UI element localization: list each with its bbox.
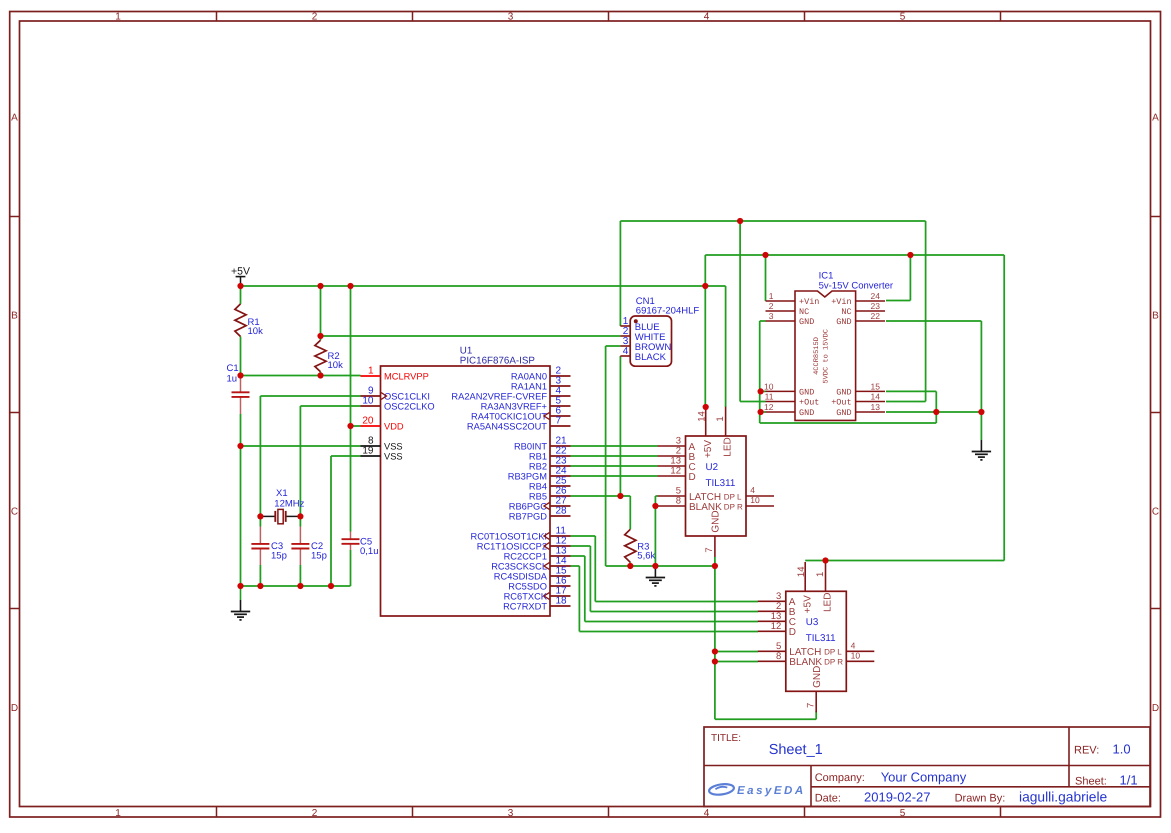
svg-text:12: 12 xyxy=(764,402,774,412)
IC1 pin 12 GND xyxy=(764,402,814,418)
svg-text:10: 10 xyxy=(362,395,374,406)
svg-text:Sheet_1: Sheet_1 xyxy=(769,742,823,758)
IC1 pin 14 +Out xyxy=(831,391,885,407)
svg-text:RA1AN1: RA1AN1 xyxy=(511,381,547,391)
U1 pin 15 RC4SDISDA xyxy=(494,565,571,581)
wire xyxy=(584,556,586,622)
svg-text:DP L: DP L xyxy=(724,492,742,501)
U1 pin 8 VSS xyxy=(361,435,403,451)
svg-text:A: A xyxy=(1152,113,1159,124)
svg-text:RA5AN4SSC2OUT: RA5AN4SSC2OUT xyxy=(467,421,547,431)
svg-text:GND: GND xyxy=(812,666,823,688)
node junction (620.4,496) xyxy=(617,493,623,499)
U2 pin 13 C xyxy=(658,456,696,473)
CN1 pin 2 WHITE xyxy=(620,326,665,343)
svg-text:4: 4 xyxy=(851,640,856,650)
wire xyxy=(321,335,621,337)
+5V power flag xyxy=(231,265,250,286)
svg-text:22: 22 xyxy=(871,311,881,321)
connector CN1 69167-204HLF body xyxy=(630,316,671,366)
svg-text:+Out: +Out xyxy=(799,398,819,408)
capacitor C1 xyxy=(240,376,242,393)
wire xyxy=(605,346,607,566)
svg-text:RC6TXCK: RC6TXCK xyxy=(504,591,548,601)
title block xyxy=(704,727,1150,807)
resistor R1 xyxy=(235,304,263,337)
svg-text:4: 4 xyxy=(750,485,755,495)
svg-text:DP R: DP R xyxy=(724,502,743,511)
CN1 pin 4 BLACK xyxy=(620,346,666,363)
U2 pin 1 LED xyxy=(715,407,733,457)
svg-text:GND: GND xyxy=(836,408,851,418)
wire xyxy=(725,286,727,407)
U3 pin 3 A xyxy=(758,591,796,608)
node junction (300.4,586) xyxy=(297,583,303,589)
wire xyxy=(571,555,585,557)
crystal X1 xyxy=(274,488,304,524)
wire xyxy=(300,405,360,407)
svg-text:A: A xyxy=(11,113,18,124)
svg-text:7: 7 xyxy=(556,415,562,426)
U3 pin 14 +5V xyxy=(796,562,814,613)
svg-text:RA2AN2VREF-CVREF: RA2AN2VREF-CVREF xyxy=(451,391,547,401)
svg-text:13: 13 xyxy=(871,402,881,412)
wire xyxy=(760,320,766,322)
svg-text:EasyEDA: EasyEDA xyxy=(737,785,806,797)
node junction (981.4,412) xyxy=(978,409,984,415)
svg-text:3: 3 xyxy=(769,311,774,321)
wire xyxy=(629,496,631,529)
node junction (240.5,286) xyxy=(237,283,243,289)
wire xyxy=(980,321,982,412)
EasyEDA logo xyxy=(708,783,805,797)
svg-text:1: 1 xyxy=(115,808,121,819)
wire xyxy=(260,395,360,397)
svg-text:10k: 10k xyxy=(248,326,264,337)
svg-text:1: 1 xyxy=(815,572,826,577)
node junction (760.6,391.4) xyxy=(758,388,764,394)
IC1 pin 24 +Vin xyxy=(831,291,885,307)
svg-text:2: 2 xyxy=(312,808,318,819)
svg-text:iagulli.gabriele: iagulli.gabriele xyxy=(1019,790,1108,805)
wire xyxy=(765,255,767,301)
svg-text:GND: GND xyxy=(799,408,814,418)
wire xyxy=(240,337,242,376)
wire xyxy=(571,445,658,447)
svg-text:1: 1 xyxy=(769,291,774,301)
wire xyxy=(241,585,351,587)
svg-text:Your Company: Your Company xyxy=(881,769,967,784)
wire xyxy=(259,565,261,586)
node junction (331,586) xyxy=(328,583,334,589)
svg-text:5: 5 xyxy=(900,808,906,819)
svg-text:VSS: VSS xyxy=(384,451,403,461)
IC1 pin 13 GND xyxy=(836,402,885,418)
svg-text:RB0INT: RB0INT xyxy=(514,441,547,451)
wire xyxy=(1003,255,1005,561)
wire xyxy=(925,221,927,402)
node junction (910.4,255) xyxy=(907,252,913,258)
svg-text:7: 7 xyxy=(805,703,816,708)
wire xyxy=(330,456,332,586)
svg-text:GND: GND xyxy=(836,317,851,327)
IC1 pin 22 GND xyxy=(836,311,885,327)
wire xyxy=(619,221,621,326)
svg-text:15p: 15p xyxy=(311,551,327,562)
wire xyxy=(606,345,621,347)
U1 pin 13 RC2CCP1 xyxy=(504,545,571,561)
svg-text:+Vin: +Vin xyxy=(799,297,819,307)
U1 pin 21 RB0INT xyxy=(514,435,571,451)
svg-text:GND: GND xyxy=(799,317,814,327)
wire xyxy=(760,411,766,413)
node junction (714.9,661.5) xyxy=(712,658,718,664)
IC1 pin 10 GND xyxy=(764,381,814,397)
ground (left, C1/C2/C3 bus) xyxy=(240,586,242,600)
wire xyxy=(704,286,706,407)
svg-text:RC2CCP1: RC2CCP1 xyxy=(504,551,547,561)
U1 pin 23 RB2 xyxy=(529,455,571,471)
ground (R3 / U2 bus) xyxy=(646,566,665,586)
svg-text:LED: LED xyxy=(822,593,833,612)
node junction (320.5,375.5) xyxy=(317,372,323,378)
wire xyxy=(760,390,766,392)
U1 pin 26 RB5 xyxy=(529,485,571,501)
U3 pin 10 DP R xyxy=(824,650,874,666)
wire xyxy=(585,621,758,623)
U2 pin 10 DP R xyxy=(724,495,774,511)
wire xyxy=(595,601,758,603)
wire xyxy=(350,550,352,586)
svg-text:VDD: VDD xyxy=(384,421,404,431)
node junction (260.4,516.4) xyxy=(257,513,263,519)
svg-text:D: D xyxy=(689,472,696,483)
svg-text:4: 4 xyxy=(623,346,629,357)
node junction (705.3,286) xyxy=(702,283,708,289)
U2 pin 8 BLANK xyxy=(658,496,723,513)
svg-text:15p: 15p xyxy=(271,551,287,562)
wire xyxy=(259,516,261,526)
wire xyxy=(299,516,301,526)
resistor R3 xyxy=(625,529,656,562)
wire xyxy=(579,631,758,633)
svg-text:RA4T0CKIC1OUT: RA4T0CKIC1OUT xyxy=(471,411,547,421)
node junction (740.1,221) xyxy=(737,218,743,224)
U2 pin 2 B xyxy=(658,446,696,463)
svg-text:RB1: RB1 xyxy=(529,451,547,461)
svg-text:1.0: 1.0 xyxy=(1113,742,1131,757)
svg-text:5,6k: 5,6k xyxy=(637,550,655,561)
wire xyxy=(350,286,352,426)
svg-text:NC: NC xyxy=(799,307,809,317)
svg-text:28: 28 xyxy=(556,505,568,516)
wire xyxy=(714,557,716,566)
U2 pin 14 +5V xyxy=(697,407,715,458)
IC1 pin 3 GND xyxy=(766,311,815,327)
wire xyxy=(886,401,926,403)
wire xyxy=(241,285,726,287)
wire xyxy=(886,320,981,322)
wire xyxy=(704,255,706,286)
wire xyxy=(571,565,580,567)
U1 pin 12 RC1T1OSICCP2 xyxy=(477,535,571,551)
wire xyxy=(909,255,911,301)
wire xyxy=(240,286,242,304)
svg-text:C: C xyxy=(11,507,18,518)
svg-text:1: 1 xyxy=(115,11,121,22)
svg-text:OSC2CLKO: OSC2CLKO xyxy=(384,401,435,411)
svg-text:Drawn By:: Drawn By: xyxy=(955,792,1006,804)
wire xyxy=(260,515,275,517)
ground (IC1) xyxy=(972,440,991,460)
wire xyxy=(715,661,758,663)
svg-text:OSC1CLKI: OSC1CLKI xyxy=(384,391,430,401)
svg-text:BLACK: BLACK xyxy=(635,352,667,363)
wire xyxy=(715,651,758,653)
wire xyxy=(815,711,817,719)
wire xyxy=(571,455,658,457)
wire xyxy=(240,414,242,446)
node junction (630.3,566) xyxy=(627,563,633,569)
svg-text:TITLE:: TITLE: xyxy=(711,733,741,744)
node junction (240.5,586) xyxy=(237,583,243,589)
svg-text:4: 4 xyxy=(704,808,710,819)
svg-text:RB5: RB5 xyxy=(529,491,547,501)
svg-text:LED: LED xyxy=(722,437,733,456)
U2 pin 4 DP L xyxy=(724,485,774,501)
svg-text:+Out: +Out xyxy=(831,398,851,408)
node junction (714.9,566) xyxy=(712,563,718,569)
IC1 pin 15 GND xyxy=(836,381,885,397)
display U2 TIL311 body xyxy=(686,436,747,536)
svg-text:D: D xyxy=(1152,703,1159,714)
capacitor C3 xyxy=(259,527,261,544)
svg-text:TIL311: TIL311 xyxy=(806,633,836,644)
svg-text:20: 20 xyxy=(362,415,374,426)
IC1 5v-15V Converter body xyxy=(795,291,856,420)
U2 pin 5 LATCH xyxy=(658,486,722,503)
svg-text:18: 18 xyxy=(556,595,568,606)
svg-text:PIC16F876A-ISP: PIC16F876A-ISP xyxy=(460,356,536,367)
svg-text:+5V: +5V xyxy=(703,440,714,458)
svg-text:10: 10 xyxy=(764,381,774,391)
IC U1 PIC16F876A-ISP body xyxy=(381,366,551,616)
svg-text:2: 2 xyxy=(312,11,318,22)
wire xyxy=(594,536,596,602)
U1 pin 2 RA0AN0 xyxy=(511,365,571,381)
wire xyxy=(571,475,658,477)
IC1 pin 11 +Out xyxy=(765,391,820,407)
svg-text:1u: 1u xyxy=(227,373,238,384)
wire xyxy=(241,445,361,447)
svg-text:69167-204HLF: 69167-204HLF xyxy=(636,305,700,316)
svg-text:RB6PGC: RB6PGC xyxy=(509,501,548,511)
display U3 TIL311 body xyxy=(786,591,847,691)
svg-text:1: 1 xyxy=(715,416,726,421)
wire xyxy=(886,411,981,413)
svg-text:RB4: RB4 xyxy=(529,481,547,491)
resistor R2 xyxy=(315,340,343,372)
svg-text:24: 24 xyxy=(871,291,881,301)
svg-text:RB7PGD: RB7PGD xyxy=(509,511,548,521)
svg-text:5v-15V Converter: 5v-15V Converter xyxy=(819,280,893,291)
svg-text:RB3PGM: RB3PGM xyxy=(508,471,547,481)
IC1 pin 1 +Vin xyxy=(766,291,820,307)
svg-text:14: 14 xyxy=(697,411,708,422)
svg-text:B: B xyxy=(11,311,18,322)
wire xyxy=(589,546,591,612)
wire xyxy=(259,396,261,516)
node junction (240.5,375.5) xyxy=(237,372,243,378)
wire xyxy=(980,412,982,440)
U3 pin 12 D xyxy=(758,621,796,638)
wire xyxy=(240,446,242,586)
wire xyxy=(320,372,322,376)
U3 pin 13 C xyxy=(758,611,796,628)
svg-text:RB2: RB2 xyxy=(529,461,547,471)
svg-text:15: 15 xyxy=(871,381,881,391)
node junction (320.5,286) xyxy=(317,283,323,289)
svg-text:1: 1 xyxy=(368,365,374,376)
U1 pin 14 RC3SCKSCL xyxy=(491,555,570,571)
svg-text:2019-02-27: 2019-02-27 xyxy=(864,790,931,805)
U1 pin 27 RB6PGC xyxy=(509,495,571,511)
node junction (705.7,407) xyxy=(703,404,709,410)
svg-text:DP R: DP R xyxy=(824,658,843,667)
node junction (655.4,566) xyxy=(652,563,658,569)
wire xyxy=(331,455,361,457)
svg-text:RC7RXDT: RC7RXDT xyxy=(503,601,547,611)
U1 pin 16 RC5SDO xyxy=(508,575,570,591)
U1 pin 5 RA3AN3VREF+ xyxy=(481,395,571,411)
node junction (714.9,651.5) xyxy=(712,648,718,654)
wire xyxy=(571,535,596,537)
svg-text:C: C xyxy=(1152,507,1159,518)
U3 pin 4 DP L xyxy=(824,640,874,656)
wire xyxy=(886,390,936,392)
svg-text:RC0T1OSOT1CKI: RC0T1OSOT1CKI xyxy=(471,531,547,541)
svg-text:12: 12 xyxy=(670,466,681,477)
wire xyxy=(286,515,300,517)
svg-text:10: 10 xyxy=(750,495,760,505)
svg-text:RC4SDISDA: RC4SDISDA xyxy=(494,571,548,581)
U1 pin 6 RA4T0CKIC1OUT xyxy=(471,405,570,421)
svg-text:3: 3 xyxy=(508,808,514,819)
U2 pin 12 D xyxy=(658,466,696,483)
svg-text:U3: U3 xyxy=(806,617,819,628)
wire xyxy=(351,425,361,427)
CN1 pin-1 marker xyxy=(634,319,638,323)
U1 pin 10 OSC2CLKO xyxy=(361,395,435,411)
svg-text:14: 14 xyxy=(796,567,807,578)
U3 pin 1 LED xyxy=(815,562,833,612)
node junction (655.4,506) xyxy=(652,503,658,509)
wire xyxy=(760,422,937,424)
node junction (350.5,286) xyxy=(347,283,353,289)
svg-text:RA0AN0: RA0AN0 xyxy=(511,371,547,381)
CN1 pin 1 BLUE xyxy=(620,316,659,333)
U1 pin 17 RC6TXCK xyxy=(504,585,571,601)
U1 pin 4 RA2AN2VREF-CVREF xyxy=(451,385,570,401)
U2 pin 7 GND xyxy=(704,510,722,557)
svg-text:3: 3 xyxy=(508,11,514,22)
node junction (350.5,426) xyxy=(347,423,353,429)
U1 pin 11 RC0T1OSOT1CKI xyxy=(471,525,571,541)
wire xyxy=(705,254,1004,256)
wire xyxy=(571,465,658,467)
svg-text:0,1u: 0,1u xyxy=(360,546,379,557)
U1 pin 25 RB4 xyxy=(529,475,571,491)
wire xyxy=(241,375,361,377)
CN1 pin 3 BROWN xyxy=(620,336,671,353)
svg-text:RC5SDO: RC5SDO xyxy=(508,581,547,591)
svg-text:D: D xyxy=(789,627,796,638)
svg-text:D: D xyxy=(11,703,18,714)
svg-text:10k: 10k xyxy=(328,360,344,371)
svg-text:Company:: Company: xyxy=(815,772,865,784)
wire xyxy=(935,391,937,423)
U1 pin 19 VSS xyxy=(361,445,403,461)
wire xyxy=(299,406,301,516)
wire xyxy=(571,495,631,497)
node junction (240.5,446) xyxy=(237,443,243,449)
wire xyxy=(299,565,301,586)
wire xyxy=(350,426,352,532)
svg-text:NC: NC xyxy=(841,307,851,317)
svg-text:4: 4 xyxy=(704,11,710,22)
svg-text:GND: GND xyxy=(836,388,851,398)
IC1 pin 23 NC xyxy=(841,301,885,317)
U1 pin 3 RA1AN1 xyxy=(511,375,571,391)
wire xyxy=(620,220,925,222)
svg-text:23: 23 xyxy=(871,301,881,311)
svg-text:11: 11 xyxy=(765,391,774,401)
node junction (825.5,560.5) xyxy=(822,557,828,563)
svg-text:TIL311: TIL311 xyxy=(706,478,736,489)
U1 pin 18 RC7RXDT xyxy=(503,595,570,611)
wire xyxy=(320,286,322,340)
node junction (760.6,412) xyxy=(758,409,764,415)
svg-text:7: 7 xyxy=(704,547,715,552)
svg-text:+Vin: +Vin xyxy=(831,297,851,307)
U1 pin 20 VDD xyxy=(361,415,404,431)
node junction (765.5,255) xyxy=(762,252,768,258)
U1 pin 22 RB1 xyxy=(529,445,571,461)
wire xyxy=(714,566,716,719)
wire xyxy=(590,611,758,613)
wire xyxy=(886,300,910,302)
node junction (320.5,336) xyxy=(317,333,323,339)
wire xyxy=(606,565,715,567)
svg-text:B: B xyxy=(1152,311,1159,322)
node junction (260.4,586) xyxy=(257,583,263,589)
svg-text:RA3AN3VREF+: RA3AN3VREF+ xyxy=(481,401,547,411)
svg-text:19: 19 xyxy=(362,445,374,456)
svg-text:DP L: DP L xyxy=(824,648,842,657)
wire xyxy=(740,401,765,403)
svg-text:C1: C1 xyxy=(227,363,239,374)
U1 pin 28 RB7PGD xyxy=(509,505,571,521)
node junction (300.4,516.4) xyxy=(297,513,303,519)
wire xyxy=(629,562,631,566)
wire xyxy=(805,560,1004,562)
IC1 pin 2 NC xyxy=(766,301,810,317)
svg-text:U2: U2 xyxy=(706,462,719,473)
wire xyxy=(654,496,656,566)
svg-text:12MHz: 12MHz xyxy=(274,498,304,509)
U1 pin 24 RB3PGM xyxy=(508,465,571,481)
U2 pin 3 A xyxy=(658,436,696,453)
